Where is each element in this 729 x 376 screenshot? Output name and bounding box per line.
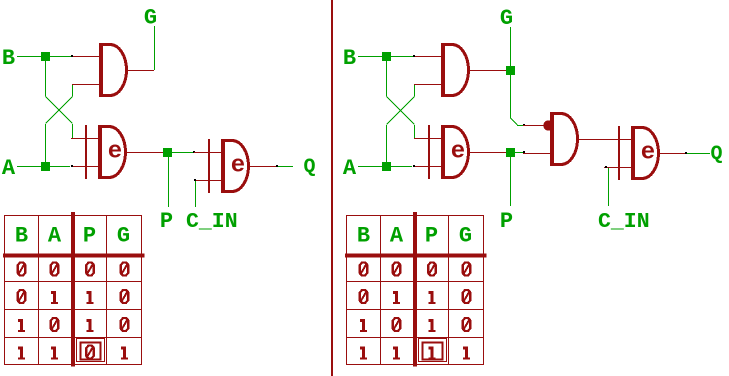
wire diagonal A-to-AND (left) <box>46 97 73 124</box>
XOR U2 input stub 1 <box>71 138 98 140</box>
XOR gate U2 (left A^B=P) <box>85 125 126 179</box>
truth table left row 2: 0 1 1 0 <box>18 290 26 303</box>
svg-text:G: G <box>117 224 130 249</box>
wire AND lower input drop (left) <box>72 84 74 96</box>
truth table right thick divider lines <box>413 212 417 367</box>
XOR U3 output stub <box>250 166 277 168</box>
pin connection dot (195,180) <box>194 179 196 181</box>
wire diagonal A-to-AND (right) <box>387 97 415 125</box>
svg-text:B: B <box>15 224 28 249</box>
truth table right row 3: 1 0 1 0 <box>362 319 365 332</box>
wire G into AND U6 (right) <box>517 125 524 127</box>
XOR U5 input stub 2 <box>414 166 441 168</box>
truth table right row 2: 0 1 1 0 <box>360 290 368 303</box>
svg-text:A: A <box>2 156 16 181</box>
AND gate U4 (right B.A=G) <box>441 43 469 97</box>
pin connection dot (414,56) <box>413 55 415 57</box>
junction node B (left) <box>41 52 50 61</box>
wire diagonal B-to-XOR (right) <box>387 97 415 125</box>
AND U1 input stub 2 <box>72 84 99 86</box>
wire B horizontal (right) <box>358 56 414 58</box>
junction node P (right) <box>506 148 515 157</box>
pin connection dot (524,125) <box>523 124 525 126</box>
AND U6 input stub 2 <box>523 153 550 155</box>
svg-text:A: A <box>390 224 404 249</box>
svg-text:C_IN: C_IN <box>598 210 650 234</box>
AND U4 input stub 1 <box>414 56 441 58</box>
AND U4 output wire to G node <box>470 70 506 72</box>
wire to XOR upper input (right) <box>414 125 416 138</box>
wire Q (left) <box>278 166 293 168</box>
pin connection dot (277,166) <box>276 165 278 167</box>
truth table right row 4: 1 1 1 1 <box>362 347 365 360</box>
XOR U3 input stub 2 <box>194 180 221 182</box>
wire down to A junction (right) <box>386 125 388 162</box>
wire C_IN vertical (right) <box>608 168 610 206</box>
wire P vertical down (left) <box>168 156 170 207</box>
wire B horizontal (left) <box>17 56 72 58</box>
AND U1 input stub 1 <box>72 56 99 58</box>
truth table left row 3: 1 0 1 0 <box>20 319 23 332</box>
svg-text:P: P <box>425 224 438 249</box>
svg-text:B: B <box>343 46 356 71</box>
pin connection dot (414,166) <box>413 165 415 167</box>
wire A horizontal (right) <box>358 166 412 168</box>
truth table right row 1: 0 0 0 0 <box>360 263 368 276</box>
XOR gate U3 (left P^C_IN=Q) <box>208 139 249 193</box>
wire Q (right) <box>687 153 710 155</box>
svg-text:P: P <box>83 224 96 249</box>
pin connection dot (524,152) <box>523 151 525 153</box>
wire down to A junction (left) <box>45 124 47 162</box>
wire G vertical (right) <box>510 27 512 66</box>
AND U1 output stub <box>128 70 154 72</box>
wire G bend diagonal (right) <box>511 118 518 125</box>
svg-text:G: G <box>144 6 157 31</box>
truth table right selected cell box (1) <box>419 339 447 362</box>
svg-text:C_IN: C_IN <box>186 210 238 234</box>
svg-text:P: P <box>500 209 513 234</box>
truth table left row 4: 1 1 0 1 <box>20 347 23 360</box>
svg-text:e: e <box>641 140 655 167</box>
XOR U7 output stub <box>660 153 686 155</box>
wire G vertical (left) <box>154 26 156 70</box>
svg-text:e: e <box>231 153 245 180</box>
wire P vertical down (right) <box>510 156 512 206</box>
XOR U3 input stub 1 <box>194 152 221 154</box>
XOR U7 input stub 1 <box>604 139 631 141</box>
wire P to AND U6 (right) <box>514 152 523 154</box>
svg-text:P: P <box>160 209 173 234</box>
panel divider line <box>331 0 333 376</box>
AND U6 output wire to XOR U7 <box>579 139 631 141</box>
pin connection dot (72,56) <box>71 55 73 57</box>
wire diagonal B-to-XOR (left) <box>46 97 73 124</box>
AND U6 input stub 1 <box>523 125 550 127</box>
svg-text:B: B <box>357 224 370 249</box>
XOR gate U7 (right =Q) <box>618 126 659 180</box>
wire from B junction down (right) <box>386 60 388 96</box>
truth table left thick divider lines <box>71 212 75 367</box>
AND gate U6 (right G.P) <box>550 112 578 166</box>
svg-text:G: G <box>500 6 513 31</box>
pin connection dot (72,166) <box>71 165 73 167</box>
XOR U5 output wire to P node <box>470 152 506 154</box>
XOR U7 input stub 2 <box>604 167 631 169</box>
truth table left grid <box>4 215 6 365</box>
junction node P (left) <box>163 148 172 157</box>
svg-text:Q: Q <box>710 143 722 166</box>
XOR U2 output stub <box>127 152 163 154</box>
wire G down to AND U6 (right) <box>510 74 512 118</box>
wire from B junction down (left) <box>45 60 47 96</box>
wire to XOR upper input (left) <box>72 124 74 138</box>
svg-text:G: G <box>459 224 472 249</box>
junction node B (right) <box>382 52 391 61</box>
junction dot on AND U6 input <box>543 120 553 130</box>
svg-text:A: A <box>343 156 357 181</box>
wire AND lower input drop (right) <box>414 84 416 96</box>
svg-text:Q: Q <box>303 156 315 179</box>
truth table right grid <box>346 215 348 365</box>
svg-text:B: B <box>2 46 15 71</box>
pin connection dot (194,152) <box>193 151 195 153</box>
XOR U5 input stub 1 <box>414 138 441 140</box>
pin connection dot (686,153) <box>685 152 687 154</box>
wire A horizontal (left) <box>17 166 70 168</box>
truth table left row 1: 0 0 0 0 <box>18 263 26 276</box>
wire C_IN vertical (left) <box>195 181 197 207</box>
XOR U2 input stub 2 <box>71 166 98 168</box>
XOR gate U5 (right A^B=P) <box>428 125 469 179</box>
AND U4 input stub 2 <box>414 84 441 86</box>
junction node A (right) <box>382 162 391 171</box>
svg-text:e: e <box>451 139 465 166</box>
wire P to XOR U3 (left) <box>171 152 194 154</box>
svg-text:e: e <box>108 139 122 166</box>
svg-text:A: A <box>48 224 62 249</box>
junction node G (right) <box>506 66 515 75</box>
truth table left selected cell box (0) <box>77 339 105 362</box>
junction node A (left) <box>41 162 50 171</box>
pin connection dot (606,167) <box>605 166 607 168</box>
AND gate U1 (left B.A=G) <box>99 43 127 97</box>
